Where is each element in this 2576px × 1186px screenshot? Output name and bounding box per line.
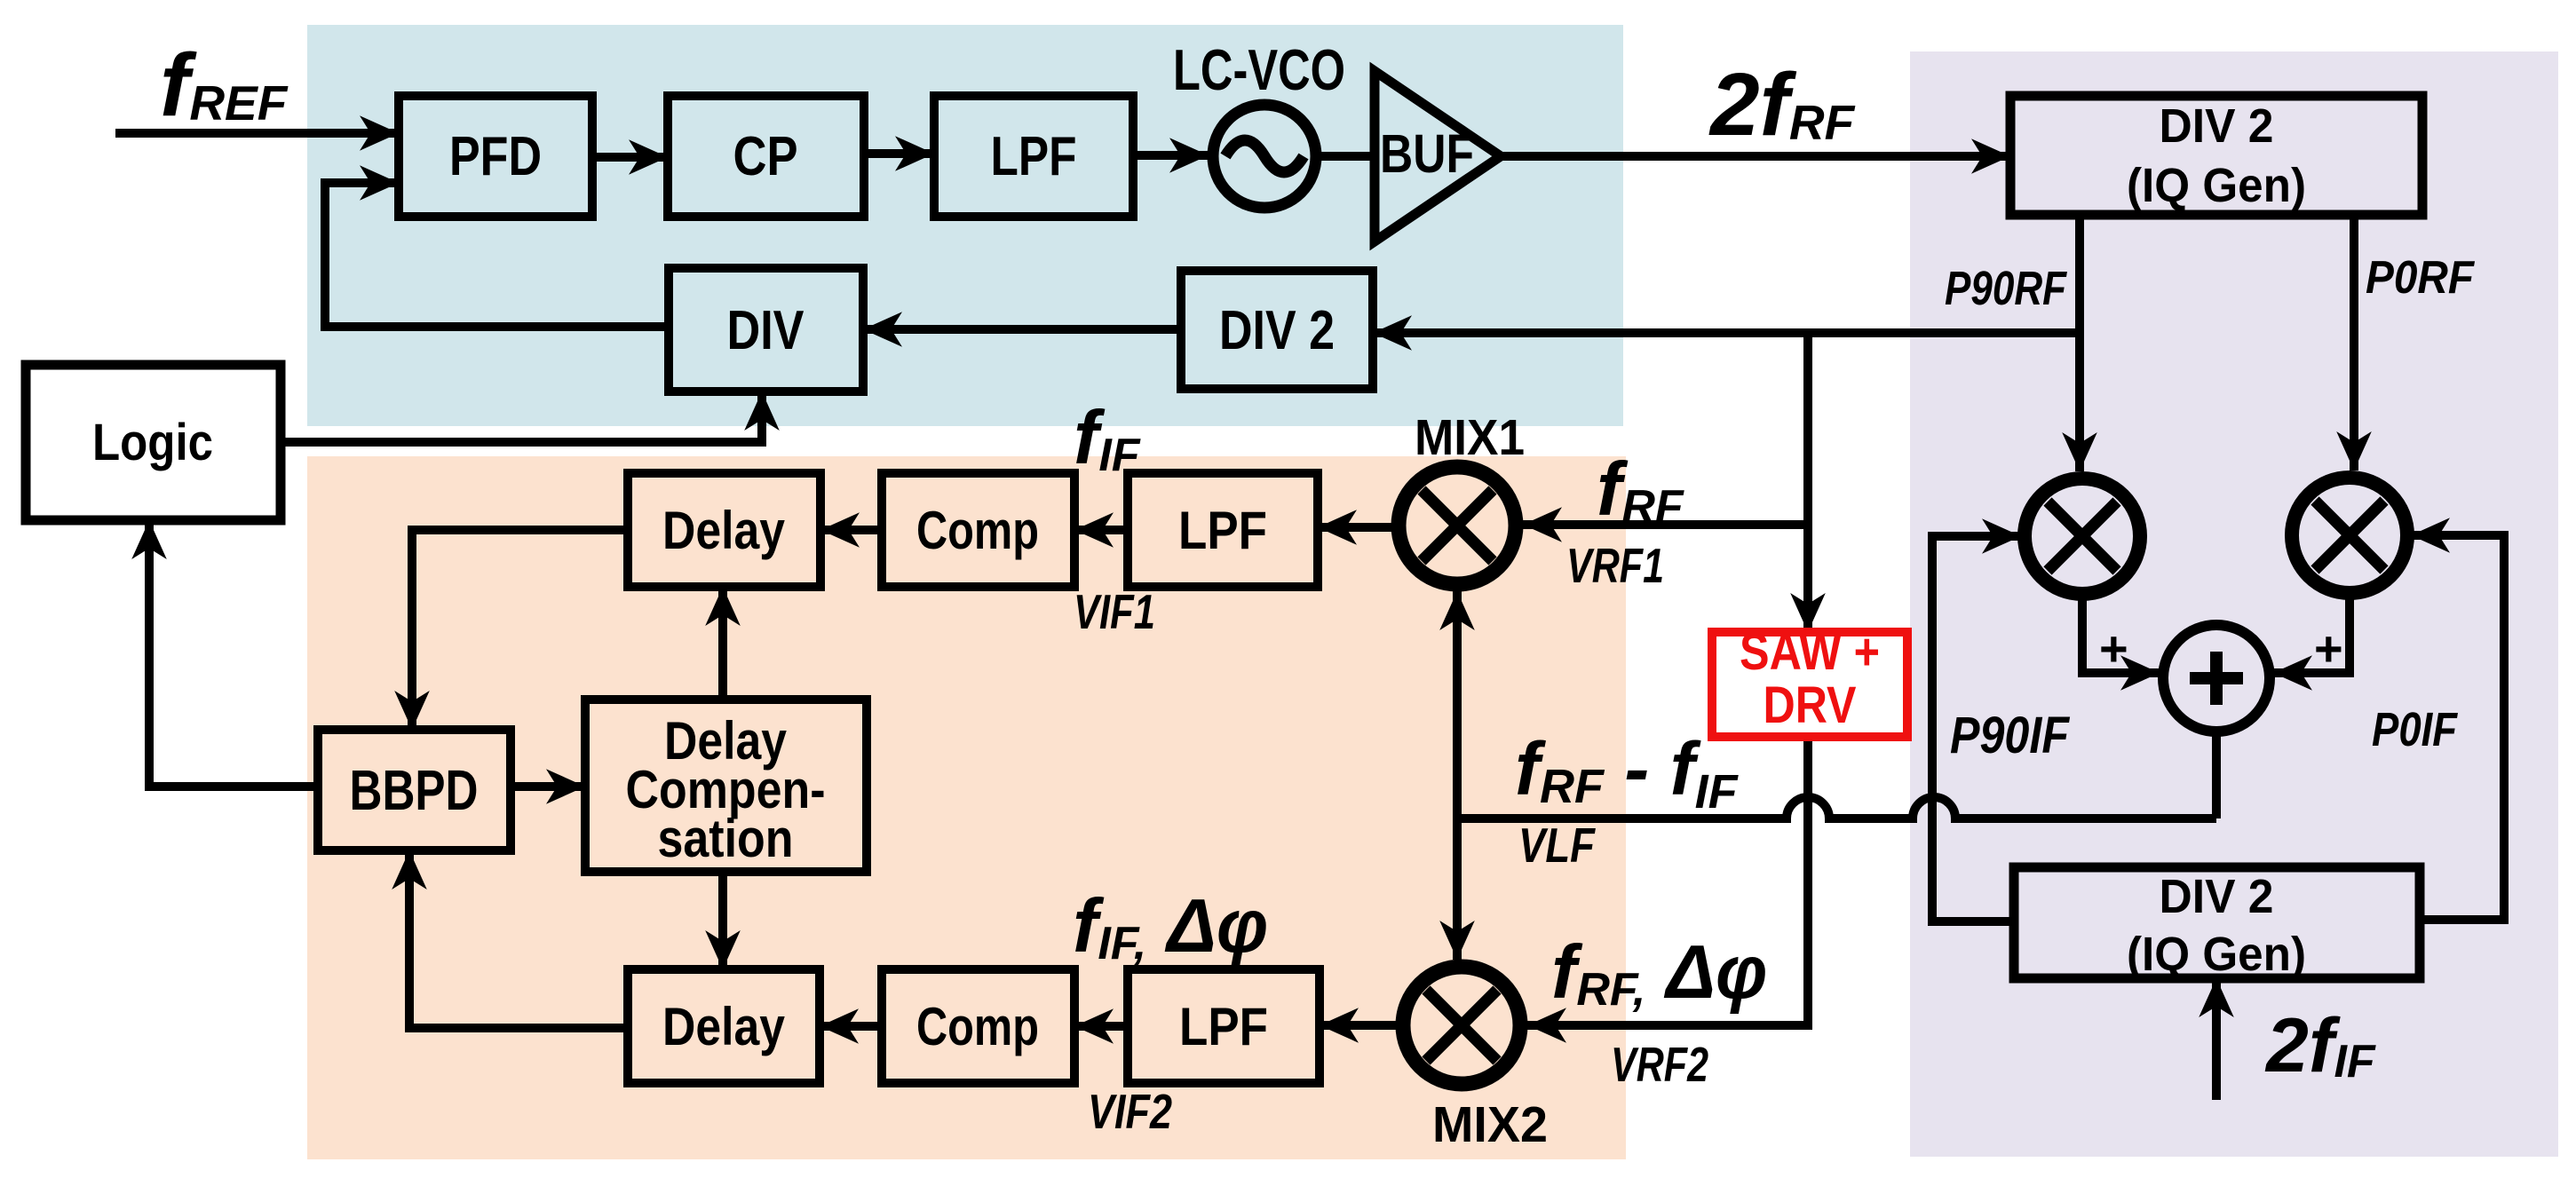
- wire 2fIF input: [2212, 978, 2221, 1100]
- wire Delay Compensation up to Delay: [718, 587, 727, 700]
- box PFD: [399, 96, 592, 217]
- box Comp lower: [882, 969, 1074, 1083]
- wire VCO to BUF: [1315, 152, 1379, 161]
- svg-text:MIX1: MIX1: [1415, 409, 1525, 466]
- box DIV 2 (IQ Gen) top: [2010, 96, 2422, 215]
- svg-text:sation: sation: [658, 809, 794, 868]
- wire fREF input arrow: [115, 129, 399, 138]
- svg-text:Comp: Comp: [916, 997, 1039, 1056]
- svg-text:LPF: LPF: [1178, 501, 1267, 560]
- svg-text:fRF: fRF: [1597, 447, 1684, 533]
- box DIV 2 (IQ Gen) bottom: [2014, 867, 2420, 978]
- svg-text:P0IF: P0IF: [2372, 703, 2459, 756]
- box BBPD: [318, 730, 511, 850]
- buffer BUF triangle: [1375, 71, 1501, 241]
- svg-text:DIV 2: DIV 2: [1219, 300, 1335, 361]
- wire P90IF from DIV2 bottom to IQ mixer L: [1932, 536, 2021, 921]
- oscillator LC-VCO circle: [1213, 105, 1316, 208]
- wire Logic to DIV control: [281, 391, 762, 442]
- wire VLF bus with hops: [1457, 797, 2216, 818]
- svg-text:VRF2: VRF2: [1611, 1037, 1708, 1092]
- wire LPF to VCO: [1133, 151, 1209, 160]
- wire adder output down to VLF bus: [2212, 730, 2221, 818]
- mixer MIX2: [1403, 967, 1520, 1084]
- box Logic: [26, 365, 281, 520]
- IF path orange background band: [307, 456, 1626, 1159]
- wire DIV2 to DIV: [863, 325, 1181, 334]
- box Comp upper: [882, 473, 1074, 587]
- PLL teal background band: [307, 25, 1623, 426]
- svg-text:BUF: BUF: [1380, 123, 1474, 184]
- svg-text:(IQ Gen): (IQ Gen): [2127, 159, 2306, 212]
- svg-text:MIX2: MIX2: [1432, 1096, 1548, 1153]
- wire LPF1 to Comp: [1074, 526, 1128, 534]
- svg-text:Delay: Delay: [662, 501, 786, 560]
- wire Delay2 to BBPD: [409, 850, 628, 1028]
- wire P0IF from DIV2 bottom to IQ mixer R: [2411, 535, 2504, 920]
- svg-text:(IQ Gen): (IQ Gen): [2127, 928, 2306, 981]
- wire Comp2 to Delay2: [820, 1022, 882, 1031]
- svg-text:2fRF: 2fRF: [1708, 55, 1856, 154]
- wire PFD to CP: [592, 153, 668, 162]
- wire Delay to BBPD: [412, 530, 628, 730]
- svg-text:LC-VCO: LC-VCO: [1173, 37, 1345, 102]
- box LPF1: [1128, 473, 1318, 587]
- svg-text:BBPD: BBPD: [350, 758, 479, 822]
- wire BBPD to Logic: [149, 520, 318, 787]
- svg-text:VLF: VLF: [1518, 818, 1596, 873]
- box DIV: [669, 268, 863, 391]
- svg-text:LPF: LPF: [1179, 997, 1268, 1056]
- svg-text:+: +: [2314, 621, 2343, 676]
- box SAW + DRV: [1712, 632, 1907, 737]
- wire LPF2 to Comp2: [1074, 1022, 1128, 1031]
- svg-text:VRF1: VRF1: [1566, 538, 1664, 593]
- svg-text:fREF: fREF: [160, 36, 289, 135]
- box LPF loop filter: [934, 96, 1133, 217]
- wire MIX1 to LPF1: [1318, 523, 1394, 532]
- wire P0RF down to IQ mixer R: [2350, 215, 2358, 470]
- svg-text:LPF: LPF: [991, 126, 1077, 187]
- svg-text:P90IF: P90IF: [1950, 707, 2070, 764]
- wire DIV output to PFD feedback input: [325, 183, 669, 327]
- wire BBPD to Delay Compensation: [511, 782, 585, 791]
- mixer IQ right: [2292, 478, 2407, 593]
- svg-text:+: +: [2099, 621, 2128, 676]
- wire BUF to DIV2 IQ Gen carrying 2fRF: [1501, 152, 2010, 161]
- box Delay Compensation: [585, 700, 867, 872]
- wire LO bus up into MIX1: [1453, 591, 1462, 822]
- box DIV 2 (teal): [1181, 271, 1373, 389]
- svg-text:DRV: DRV: [1764, 676, 1857, 734]
- svg-text:P90RF: P90RF: [1945, 262, 2068, 315]
- wire SAW out to MIX2: [1527, 737, 1808, 1025]
- mixer IQ left: [2025, 478, 2140, 594]
- svg-text:VIF1: VIF1: [1074, 584, 1155, 639]
- wire Comp to Delay: [820, 526, 882, 534]
- svg-text:CP: CP: [733, 126, 798, 187]
- wire CP to LPF: [864, 149, 934, 158]
- mixer MIX1: [1399, 467, 1516, 584]
- wire P90RF tap to DIV2 feedback: [1373, 328, 2080, 337]
- wire P90RF tap down into SAW: [1803, 333, 1812, 632]
- svg-text:P0RF: P0RF: [2366, 252, 2475, 304]
- svg-text:VIF2: VIF2: [1088, 1084, 1172, 1139]
- IQ purple background band: [1910, 51, 2558, 1157]
- box Delay upper: [628, 473, 820, 587]
- svg-text:DIV 2: DIV 2: [2160, 99, 2274, 153]
- svg-text:Delay: Delay: [662, 997, 786, 1056]
- wire MIX2 to LPF2: [1320, 1021, 1399, 1030]
- wire P90RF down to IQ mixer L: [2075, 215, 2084, 471]
- wire LO bus down into MIX2: [1453, 815, 1462, 960]
- svg-text:DIV: DIV: [727, 300, 805, 361]
- box Delay lower: [628, 969, 820, 1083]
- box LPF2: [1128, 969, 1320, 1083]
- svg-text:Logic: Logic: [92, 414, 213, 471]
- box CP: [668, 96, 864, 217]
- wire IQ mixer R to adder: [2273, 593, 2350, 673]
- adder circle: [2163, 625, 2270, 731]
- svg-text:PFD: PFD: [449, 126, 542, 187]
- svg-text:DIV 2: DIV 2: [2160, 870, 2274, 923]
- wire fRF tap into MIX1: [1523, 520, 1808, 529]
- wire Delay Compensation down to Delay2: [718, 872, 727, 969]
- svg-text:Comp: Comp: [916, 501, 1039, 560]
- wire IQ mixer L to adder: [2082, 594, 2160, 673]
- svg-text:SAW +: SAW +: [1740, 623, 1880, 681]
